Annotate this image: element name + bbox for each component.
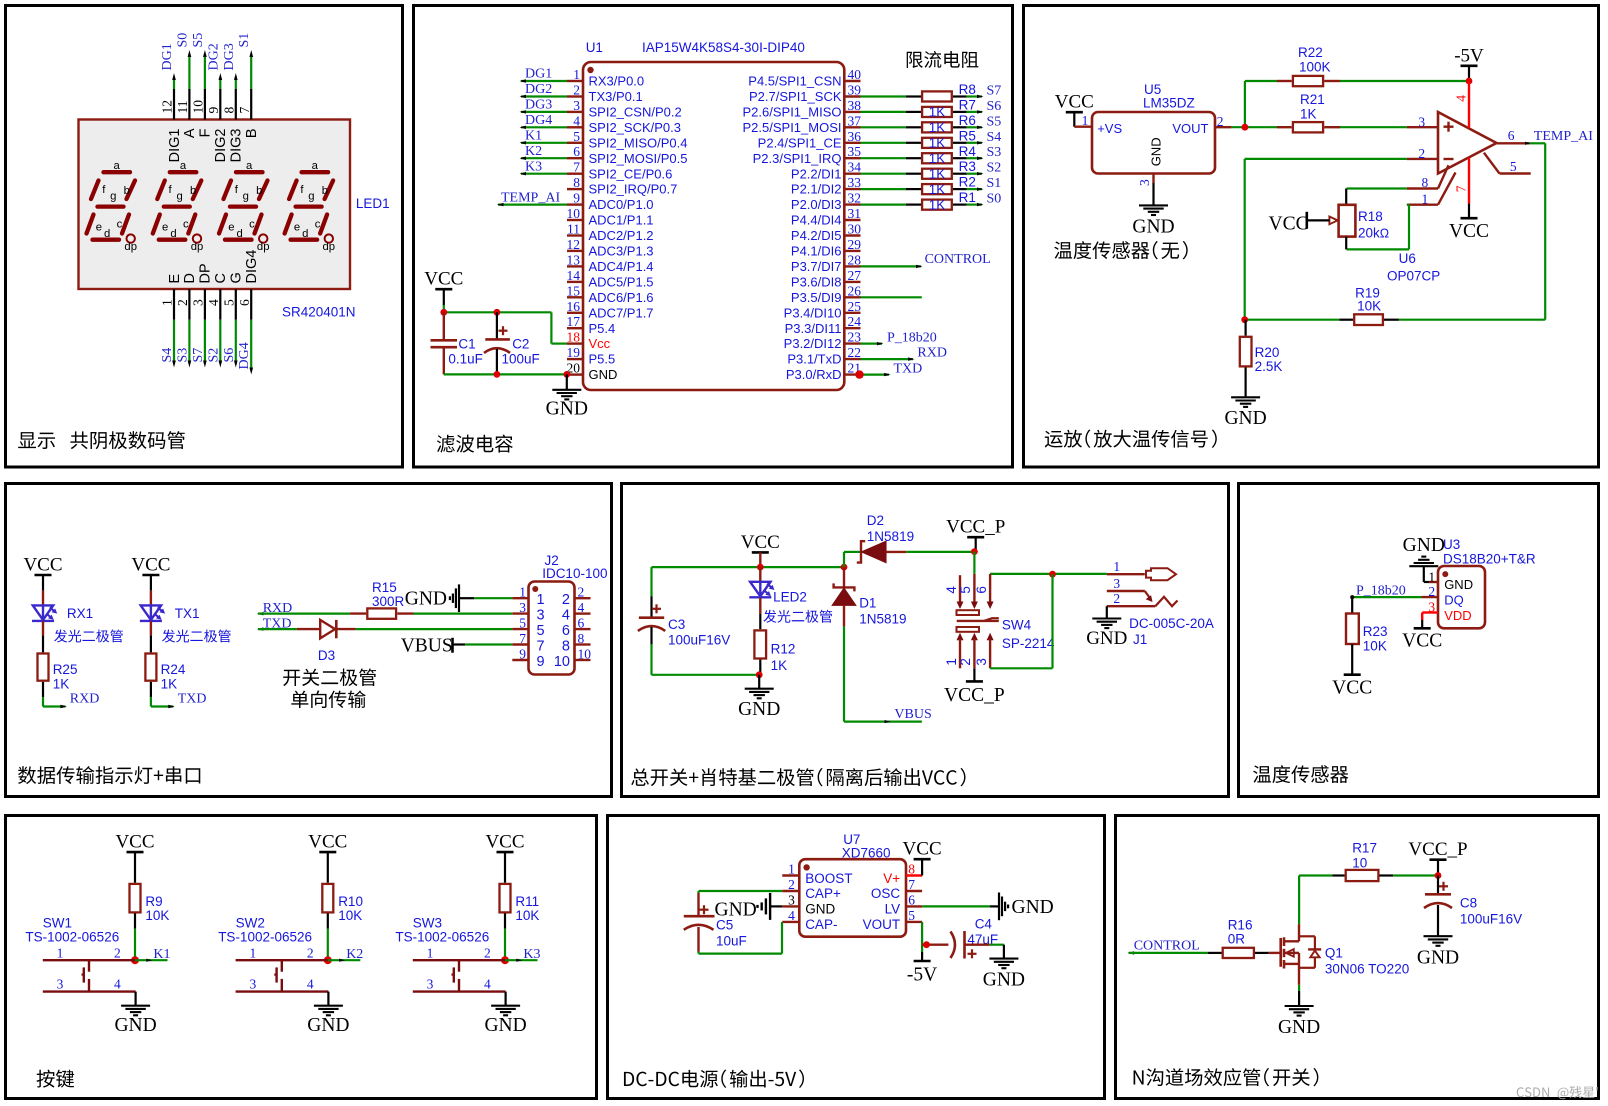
- svg-text:1: 1: [1422, 192, 1429, 207]
- svg-text:S6: S6: [222, 348, 237, 363]
- wire D3 to J2 pin 5: [356, 628, 513, 630]
- svg-text:2: 2: [1217, 114, 1224, 129]
- svg-text:0.1uF: 0.1uF: [448, 351, 483, 366]
- svg-text:GND: GND: [307, 1015, 349, 1036]
- U3 pin 1 lead to ground: [1423, 566, 1425, 582]
- connector J2 IDC10-100 body: [529, 582, 575, 675]
- op-amp pin 7 supply lead: [1468, 158, 1470, 204]
- resistor R6 1K on U1 pin 37 to net S5: [861, 126, 906, 128]
- power VCC_P bottom at SW4 pin 2: [973, 668, 975, 681]
- op-amp pin 3 stub: [1407, 126, 1438, 128]
- svg-text:38: 38: [848, 98, 862, 113]
- U1 pin 23 stub and name P3.2/DI12: [844, 342, 860, 344]
- U1 pin 3 stub and name SPI2_CSN/P0.2: [567, 111, 583, 113]
- svg-text:8: 8: [573, 175, 580, 190]
- U1 pin 8 stub and name SPI2_IRQ/P0.7: [567, 188, 583, 190]
- svg-text:VCC: VCC: [485, 832, 524, 853]
- svg-text:18: 18: [567, 330, 581, 345]
- pin 4 (C) wire to net S2: [219, 289, 221, 320]
- SW3 contact plungers: [458, 960, 460, 972]
- svg-text:ADC4/P1.4: ADC4/P1.4: [589, 259, 654, 274]
- junction node R19/R20: [1241, 316, 1248, 323]
- svg-text:ADC3/P1.3: ADC3/P1.3: [589, 244, 654, 259]
- svg-text:P2.4/SPI1_CE: P2.4/SPI1_CE: [758, 135, 842, 150]
- svg-text:V+: V+: [883, 871, 900, 886]
- wire net K1 to U1 pin 5: [521, 142, 567, 144]
- svg-text:GND: GND: [738, 699, 780, 720]
- svg-text:DQ: DQ: [1444, 592, 1464, 607]
- wire U7 CAP- pin 4 to C5 bottom: [697, 927, 699, 952]
- panel caption: N-channel FET switch: [1134, 1068, 1319, 1086]
- svg-text:VCC: VCC: [903, 839, 942, 860]
- svg-text:1K: 1K: [1300, 106, 1317, 121]
- svg-text:CONTROL: CONTROL: [1134, 938, 1200, 953]
- svg-text:D1: D1: [859, 596, 876, 611]
- svg-text:VCC: VCC: [131, 555, 170, 576]
- panel frame: power switch: [622, 484, 1229, 797]
- svg-text:6: 6: [237, 299, 252, 306]
- pin 7 (B) wire to net S1: [250, 89, 252, 120]
- svg-text:30N06 TO220: 30N06 TO220: [1325, 962, 1409, 977]
- junction node VCC/LED2: [757, 564, 764, 571]
- svg-text:2: 2: [484, 945, 491, 960]
- J2 pin 7 stub: [512, 643, 528, 645]
- U1 pin 32 stub and name P2.0/DI3: [844, 203, 860, 205]
- wire net RXD on U1 pin 22: [861, 358, 914, 360]
- connector J1 DC-005C-20A pin 1 lead: [1107, 573, 1145, 575]
- svg-text:DG3: DG3: [222, 43, 237, 70]
- wire net DG2 to U1 pin 2: [521, 95, 567, 97]
- svg-text:GND: GND: [1148, 137, 1163, 166]
- svg-text:DG2: DG2: [206, 43, 221, 70]
- svg-text:P_18b20: P_18b20: [1356, 584, 1406, 599]
- temp sensor U3 DS18B20 body: [1438, 566, 1485, 628]
- resistor R4 1K on U1 pin 35 to net S3: [861, 157, 906, 159]
- wire net TEMP_AI to U1 pin 9: [498, 204, 567, 206]
- svg-text:RXD: RXD: [70, 692, 100, 707]
- svg-text:S2: S2: [987, 161, 1002, 176]
- wire R21 to op-amp pin 3: [1340, 126, 1407, 128]
- wire SW4 pin 3 to J1 node: [990, 667, 1052, 669]
- svg-text:P2.7/SPI1_SCK: P2.7/SPI1_SCK: [749, 89, 842, 104]
- svg-text:SPI2_SCK/P0.3: SPI2_SCK/P0.3: [589, 120, 682, 135]
- svg-text:K1: K1: [525, 129, 542, 144]
- svg-text:ADC6/P1.6: ADC6/P1.6: [589, 290, 654, 305]
- svg-text:10K: 10K: [338, 908, 362, 923]
- J2 first-pin marker dot: [532, 586, 538, 592]
- junction node VOUT/C4: [923, 941, 930, 948]
- svg-text:26: 26: [848, 283, 862, 298]
- power VCC for R11: [497, 851, 514, 854]
- svg-text:36: 36: [848, 129, 862, 144]
- U1 pin 16 stub and name ADC7/P1.7: [567, 312, 583, 314]
- svg-text:300R: 300R: [372, 594, 405, 609]
- op-amp pin 5 stub: [1484, 153, 1500, 174]
- svg-text:100K: 100K: [1299, 60, 1331, 75]
- svg-text:1K: 1K: [53, 677, 70, 692]
- svg-text:4: 4: [578, 600, 585, 615]
- J2 pin 8 stub: [575, 643, 591, 645]
- svg-text:4: 4: [944, 586, 959, 594]
- SW4 common lever: [957, 620, 999, 622]
- resistor R1 1K on U1 pin 32 to net S0: [861, 204, 906, 206]
- svg-text:Vcc: Vcc: [589, 336, 611, 351]
- resistor R5 1K on U1 pin 36 to net S4: [861, 142, 906, 144]
- R23 bottom lead to VCC: [1351, 644, 1353, 675]
- 7-seg digit 1 segments a-g and dp: [87, 172, 136, 240]
- svg-text:VCC: VCC: [1055, 92, 1094, 113]
- svg-text:DIG1: DIG1: [167, 129, 183, 163]
- 7-seg digit 2 segments a-g and dp: [153, 172, 202, 240]
- svg-text:SR420401N: SR420401N: [282, 305, 356, 320]
- svg-text:P3.7/DI7: P3.7/DI7: [791, 259, 842, 274]
- wire R17 to VCC_P node: [1393, 874, 1438, 876]
- svg-text:b: b: [322, 185, 328, 197]
- SW2 contact plungers: [281, 960, 283, 972]
- svg-text:TS-1002-06526: TS-1002-06526: [218, 930, 312, 945]
- svg-text:3: 3: [1418, 115, 1425, 130]
- svg-text:16: 16: [567, 299, 581, 314]
- svg-text:P2.2/DI1: P2.2/DI1: [791, 166, 842, 181]
- resistor R8 1K on U1 pin 39 to net S7: [861, 95, 906, 97]
- resistor R9 10K pullup: [134, 852, 136, 883]
- net label CONTROL wire: [1128, 951, 1135, 954]
- svg-text:GND: GND: [1086, 628, 1127, 649]
- svg-text:DC-005C-20A: DC-005C-20A: [1129, 616, 1214, 631]
- svg-text:VBUS: VBUS: [894, 707, 931, 722]
- svg-text:9: 9: [573, 191, 580, 206]
- pin 2 (D) wire to net S3: [188, 289, 190, 320]
- net label RXD wire to R15: [257, 612, 264, 615]
- panel frame: op-amp: [1024, 6, 1599, 468]
- svg-text:R10: R10: [338, 894, 363, 909]
- svg-text:1N5819: 1N5819: [867, 529, 914, 544]
- svg-text:1: 1: [1082, 113, 1089, 128]
- svg-text:GND: GND: [805, 902, 835, 917]
- svg-text:SPI2_IRQ/P0.7: SPI2_IRQ/P0.7: [589, 182, 678, 197]
- svg-text:g: g: [308, 191, 314, 203]
- junction node at U1 pin 20: [563, 371, 570, 378]
- U1 pin 4 stub and name SPI2_SCK/P0.3: [567, 126, 583, 128]
- U7 pin 1 stub and name BOOST: [782, 874, 799, 876]
- svg-text:P5.5: P5.5: [589, 352, 616, 367]
- svg-text:DG3: DG3: [525, 98, 552, 113]
- pin 3 (DP) wire to net S7: [204, 289, 206, 320]
- svg-text:8: 8: [1422, 175, 1429, 190]
- svg-text:R6: R6: [959, 113, 976, 128]
- svg-text:S1: S1: [237, 33, 252, 48]
- op-amp pin 2 stub: [1407, 158, 1438, 160]
- svg-text:LED1: LED1: [356, 196, 390, 211]
- svg-text:TXD: TXD: [178, 692, 207, 707]
- svg-text:10K: 10K: [1363, 639, 1387, 654]
- svg-text:GND: GND: [983, 970, 1025, 991]
- svg-text:DG1: DG1: [525, 67, 552, 82]
- svg-text:DIG3: DIG3: [229, 129, 245, 163]
- J1 pin 2 sleeve lever: [1107, 605, 1156, 607]
- panel caption: DC-DC power: [624, 1069, 804, 1087]
- svg-text:7: 7: [1453, 185, 1468, 192]
- svg-text:RX3/P0.0: RX3/P0.0: [589, 74, 645, 89]
- capacitor C8 100uF16V: [1437, 876, 1439, 895]
- capacitor C3 100uF16V: [650, 567, 652, 596]
- junction node at J1 pin 1 wire: [1049, 571, 1056, 578]
- svg-text:R1: R1: [959, 190, 976, 205]
- svg-text:7: 7: [537, 638, 545, 654]
- svg-text:R5: R5: [959, 128, 976, 143]
- svg-text:C: C: [213, 273, 229, 283]
- svg-text:C1: C1: [458, 337, 475, 352]
- svg-text:23: 23: [848, 330, 862, 345]
- svg-text:K3: K3: [523, 947, 540, 962]
- 7-seg digit 4 segments a-g and dp: [285, 172, 334, 240]
- U1 pin 12 stub and name ADC3/P1.3: [567, 250, 583, 252]
- svg-text:5: 5: [221, 299, 236, 306]
- svg-text:B: B: [244, 129, 260, 139]
- svg-text:b: b: [256, 185, 262, 197]
- svg-text:2.5K: 2.5K: [1255, 359, 1283, 374]
- svg-text:IDC10-100: IDC10-100: [542, 566, 607, 581]
- svg-text:C3: C3: [668, 617, 685, 632]
- power -5V below U7: [914, 960, 931, 963]
- junction node SW2 pin 2: [324, 956, 332, 964]
- J2 pin 1 stub: [512, 597, 528, 599]
- svg-text:S4: S4: [160, 348, 175, 363]
- resistor R23 10K pullup: [1351, 597, 1353, 613]
- svg-text:DG4: DG4: [525, 113, 552, 128]
- svg-text:a: a: [246, 160, 253, 172]
- svg-text:R2: R2: [959, 175, 976, 190]
- svg-text:GND: GND: [405, 589, 447, 610]
- svg-text:DP: DP: [198, 263, 214, 283]
- wire Q1 source to ground: [1298, 985, 1300, 991]
- SW3 actuator: [453, 967, 455, 982]
- ground symbol below U5: [1139, 204, 1168, 206]
- svg-text:10: 10: [554, 654, 570, 670]
- power VCC_P: [1430, 858, 1447, 861]
- svg-text:R15: R15: [372, 580, 397, 595]
- wire U5 VOUT to R21 and R22: [1231, 126, 1277, 128]
- pin 1 (E) wire to net S4: [173, 289, 175, 320]
- junction node VCC_P/D2: [971, 548, 978, 555]
- svg-text:2: 2: [788, 877, 795, 892]
- caption: temperature sensor (none): [1054, 241, 1187, 259]
- U7 pin 5 stub and name VOUT: [906, 921, 922, 923]
- svg-text:34: 34: [848, 160, 862, 175]
- junction node R12/GND: [756, 671, 763, 678]
- panel caption: op-amp amplify temp signal: [1045, 429, 1217, 447]
- svg-text:S3: S3: [175, 348, 190, 363]
- U1 pin 9 stub and name ADC0/P1.0: [567, 203, 583, 205]
- svg-text:S7: S7: [987, 84, 1002, 99]
- watermark CSDN: [1517, 1086, 1598, 1099]
- wire net K1: [135, 959, 168, 961]
- svg-text:1K: 1K: [929, 136, 946, 151]
- svg-text:1K: 1K: [161, 677, 178, 692]
- panel frame: MOSFET: [1116, 816, 1599, 1099]
- resistor R2 1K on U1 pin 33 to net S1: [861, 188, 906, 190]
- svg-text:TS-1002-06526: TS-1002-06526: [395, 930, 489, 945]
- junction node SW1 pin 2: [131, 956, 139, 964]
- svg-text:R4: R4: [959, 144, 977, 159]
- svg-text:10: 10: [578, 647, 592, 662]
- svg-text:ADC5/P1.5: ADC5/P1.5: [589, 275, 654, 290]
- J2 pin 10 stub: [575, 659, 591, 661]
- svg-text:ADC2/P1.2: ADC2/P1.2: [589, 228, 654, 243]
- svg-text:6: 6: [578, 616, 585, 631]
- svg-text:27: 27: [848, 268, 862, 283]
- svg-text:S1: S1: [987, 176, 1002, 191]
- op-amp pin 8 stub: [1438, 165, 1449, 188]
- svg-text:S4: S4: [987, 130, 1002, 145]
- svg-text:RXD: RXD: [917, 346, 947, 361]
- svg-text:R25: R25: [53, 662, 78, 677]
- U1 pin 15 stub and name ADC6/P1.6: [567, 296, 583, 298]
- svg-text:GND: GND: [1403, 535, 1445, 556]
- wire VCC_P down to SW4 pin 5: [973, 552, 975, 574]
- svg-text:DG2: DG2: [525, 82, 552, 97]
- J2 pin 3 stub: [512, 612, 528, 614]
- svg-text:R9: R9: [145, 894, 162, 909]
- J2 pin 5 stub: [512, 628, 528, 630]
- op-amp U6 OP07CP triangle: [1438, 112, 1497, 174]
- panel frame: display: [6, 6, 403, 468]
- capacitor C1 0.1uF: [443, 312, 445, 339]
- junction node at U5 VOUT: [1242, 124, 1249, 131]
- svg-text:c: c: [183, 219, 189, 231]
- svg-text:SW4: SW4: [1002, 618, 1032, 633]
- wire inverting input to R19/R20 node: [1245, 158, 1407, 160]
- svg-text:TEMP_AI: TEMP_AI: [1534, 129, 1593, 144]
- svg-text:2: 2: [958, 658, 973, 666]
- svg-text:Q1: Q1: [1325, 946, 1343, 961]
- svg-text:4: 4: [114, 977, 121, 992]
- svg-text:S2: S2: [206, 348, 221, 363]
- svg-text:R7: R7: [959, 97, 976, 112]
- MOSFET Q1 30N06 N-channel: [1279, 938, 1282, 967]
- svg-text:DG1: DG1: [160, 43, 175, 70]
- svg-text:3: 3: [190, 299, 205, 306]
- svg-text:8: 8: [578, 631, 585, 646]
- svg-text:10: 10: [1352, 856, 1367, 871]
- svg-text:1: 1: [57, 945, 64, 960]
- title: current-limit resistors: [907, 51, 979, 68]
- wire net DG3 to U1 pin 3: [521, 111, 567, 113]
- wire net P_18b20 to R23: [1352, 596, 1421, 598]
- label: switching diode one-way: [283, 668, 376, 686]
- svg-text:8: 8: [562, 638, 570, 654]
- U1 pin 24 stub and name P3.3/DI11: [844, 327, 860, 329]
- svg-text:VCC_P: VCC_P: [944, 685, 1005, 706]
- U1 pin 36 stub and name P2.4/SPI1_CE: [844, 142, 860, 144]
- svg-text:3: 3: [249, 977, 256, 992]
- svg-text:GND: GND: [1132, 216, 1174, 237]
- svg-text:TEMP_AI: TEMP_AI: [501, 190, 560, 205]
- svg-text:10: 10: [190, 100, 205, 114]
- junction node VCC_P/C8: [1435, 872, 1442, 879]
- U7 pin 8 stub and name V+: [906, 874, 922, 876]
- ground symbol above U3 pin 1: [1409, 565, 1438, 567]
- svg-text:P4.1/DI6: P4.1/DI6: [791, 244, 842, 259]
- svg-text:1N5819: 1N5819: [859, 612, 906, 627]
- U3 first-pin marker dot: [1442, 571, 1448, 577]
- U5 pin 1 lead: [1074, 125, 1092, 127]
- pin 12 (DIG1) wire to net DG1: [173, 89, 175, 120]
- svg-text:RX1: RX1: [67, 606, 93, 621]
- svg-text:3: 3: [573, 98, 580, 113]
- svg-text:3: 3: [1137, 179, 1152, 186]
- SW4 top contact bar: [957, 610, 980, 615]
- power VCC to U5 pin 1: [1066, 111, 1083, 114]
- LED TX1: [150, 591, 152, 606]
- svg-text:R11: R11: [515, 894, 539, 909]
- svg-text:S5: S5: [191, 33, 206, 48]
- wire net TXD on U1 pin 21 with junction: [861, 374, 890, 376]
- U1 pin 20 stub and name GND: [567, 373, 583, 375]
- svg-text:1: 1: [537, 592, 545, 608]
- svg-text:1K: 1K: [771, 658, 788, 673]
- wire R25 to net RXD: [42, 682, 44, 697]
- svg-text:G: G: [229, 272, 245, 283]
- Q1 drain lead: [1284, 940, 1299, 942]
- pin 11 (A) wire to net S0: [188, 89, 190, 120]
- resistor R11 10K pullup: [504, 852, 506, 883]
- svg-text:XD7660: XD7660: [842, 846, 891, 861]
- svg-text:P3.1/TxD: P3.1/TxD: [787, 352, 841, 367]
- svg-text:d: d: [170, 228, 176, 240]
- wire net P_18b20 on U1 pin 23: [861, 343, 883, 345]
- svg-text:29: 29: [848, 237, 862, 252]
- svg-text:D: D: [182, 273, 198, 283]
- wire R11 to SW3: [504, 914, 506, 929]
- svg-text:R18: R18: [1358, 209, 1383, 224]
- power VCC for decoupling caps: [435, 288, 452, 291]
- power GND to J2 pin 1: [458, 584, 460, 612]
- power VCC rail: [752, 551, 769, 554]
- svg-text:SPI2_MOSI/P0.5: SPI2_MOSI/P0.5: [589, 151, 688, 166]
- wire GND to U7 pin 3: [770, 905, 782, 907]
- svg-text:33: 33: [848, 175, 862, 190]
- svg-text:S0: S0: [987, 192, 1002, 207]
- svg-text:30: 30: [848, 222, 862, 237]
- U1 pin 1 stub and name RX3/P0.0: [567, 80, 583, 82]
- svg-text:8: 8: [221, 107, 236, 114]
- svg-text:SW2: SW2: [236, 916, 265, 931]
- svg-text:c: c: [249, 219, 255, 231]
- U1 pin 13 stub and name ADC4/P1.4: [567, 265, 583, 267]
- svg-text:K2: K2: [525, 144, 542, 159]
- svg-text:D3: D3: [318, 648, 335, 663]
- svg-text:9: 9: [519, 647, 526, 662]
- svg-text:7: 7: [908, 877, 915, 892]
- svg-text:4: 4: [1453, 95, 1468, 102]
- wire net CONTROL on U1 pin 28: [861, 265, 922, 267]
- svg-text:TX1: TX1: [175, 606, 200, 621]
- svg-text:VCC: VCC: [308, 832, 347, 853]
- svg-text:ADC0/P1.0: ADC0/P1.0: [589, 197, 654, 212]
- wire U7 VOUT pin 5 to -5V and C4: [921, 922, 923, 952]
- svg-text:S3: S3: [987, 145, 1002, 160]
- svg-text:CONTROL: CONTROL: [925, 252, 991, 267]
- U1 pin 28 stub and name P3.7/DI7: [844, 265, 860, 267]
- panel caption: temperature sensor: [1253, 765, 1348, 783]
- svg-text:DS18B20+T&R: DS18B20+T&R: [1443, 552, 1536, 567]
- svg-text:1: 1: [573, 67, 580, 82]
- SW4 pin 4 lead: [959, 575, 961, 603]
- panel frame: temp sensor: [1239, 484, 1599, 797]
- U1 pin 14 stub and name ADC5/P1.5: [567, 281, 583, 283]
- svg-text:ADC1/P1.1: ADC1/P1.1: [589, 213, 654, 228]
